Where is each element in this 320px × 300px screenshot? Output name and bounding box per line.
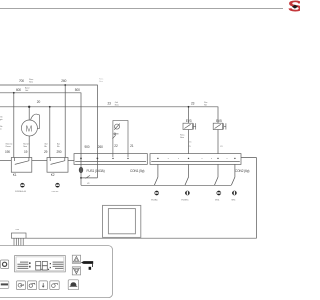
svg-text:EV-VAC: EV-VAC [151,198,158,201]
top border rule [0,8,283,10]
svg-text:23: 23 [108,102,112,106]
terminal EV-RISC [185,191,189,195]
CON2 pin 3 [214,164,218,185]
svg-text:260: 260 [61,79,66,83]
logo S (red, cropped at right edge) [288,0,303,15]
CON2 pin 2 [185,164,189,185]
CON2 pin 4 [231,164,235,185]
CON2 spare pin mark [226,157,229,160]
junction wire EV3 on line 23 [188,106,190,108]
solenoid valve EV3 [183,123,196,129]
CON2 spare pin mark [167,157,170,160]
temp lever indicator [81,261,93,264]
svg-text:EV3: EV3 [186,119,192,123]
svg-text:CON1 (5p): CON1 (5p) [130,169,144,173]
sensor symbol ON/OFF [55,183,59,187]
CON2 spare pin mark [210,157,213,160]
button air to face [17,281,26,290]
thermostat TH1 box [112,121,128,157]
svg-text:23: 23 [191,102,195,106]
CON2 pin 1 [154,164,158,185]
svg-text:19: 19 [24,150,28,154]
line 20/23 [0,107,218,123]
terminal 3 [217,191,221,195]
temp up button [72,255,80,263]
wire EV5 lower [217,130,219,154]
junction dots [13,84,190,179]
connector CN6 to panel [11,233,26,246]
button demist [50,281,59,290]
svg-text:M: M [25,123,32,133]
junction wire 29 on line 20 [49,106,51,108]
svg-text:EV5: EV5 [216,119,222,123]
motor wire top [28,107,30,120]
svg-text:260: 260 [98,145,103,149]
svg-text:ON/OFF: ON/OFF [52,191,60,193]
CON1 pin 900 [80,158,82,160]
junction fuse link [80,177,82,179]
display right bars [53,262,64,268]
control panel body [0,246,113,298]
connector CON1 bar [74,154,147,165]
svg-text:K1: K1 [13,173,17,177]
svg-text:20: 20 [37,100,41,104]
svg-text:29: 29 [44,150,48,154]
wire 190 [13,93,15,158]
junction motor wire on line 20 [28,106,30,108]
control unit double box [103,205,141,237]
CON1 pin 260 [97,158,99,160]
wire 29 to relay K2 [49,107,51,158]
solenoid valve EV5 [213,123,226,129]
display [15,256,66,272]
wire 290 [64,85,66,158]
svg-text:500: 500 [75,88,80,92]
fuse link [81,177,97,179]
CON2 pin 4 mark [234,158,235,159]
button air bi-level [28,281,37,290]
CON2 spare pin mark [201,157,204,160]
temp down button [72,267,80,275]
fuse FUS1 [79,167,83,173]
button vent mode (clipped) [0,281,9,288]
sensor symbol SONDA [20,183,24,187]
terminal EV-VAC [155,191,159,195]
svg-text:Ner: Ner [204,105,207,107]
relay K2 [47,158,68,173]
svg-text:Blu: Blu [44,146,47,148]
terminal MR1 [232,191,236,195]
blower motor M1 [21,114,39,136]
common return line [81,184,231,186]
switch blade on fuse link [85,175,90,178]
bus wire 600/500 [0,93,81,167]
svg-text:SONDA 4+00: SONDA 4+00 [15,190,27,193]
bus wire 700/260 [0,85,97,178]
svg-text:900: 900 [85,145,90,149]
svg-text:EV-RISC: EV-RISC [181,199,189,201]
fan button [1,260,9,269]
wire EV3 [188,107,190,123]
CON1 pin 21 [127,158,128,159]
CON2 spare pin mark [177,157,180,160]
relay K1 [11,158,32,173]
CON2 pin 2 mark [188,158,189,159]
motor wire bottom [28,136,30,158]
svg-text:FUS1 (0.63A): FUS1 (0.63A) [87,169,105,173]
junction wire 290 on bus 700 [64,84,66,86]
wire below fuse [80,173,82,185]
svg-text:21: 21 [130,144,134,148]
button recirculation [68,280,78,290]
CON2 pin 1 mark [157,158,158,159]
connector CON2 bar [150,154,241,165]
relay bus line [0,159,11,161]
svg-text:22: 22 [114,144,118,148]
svg-text:190: 190 [5,150,10,154]
svg-text:290: 290 [57,150,62,154]
CON2 pin 3 mark [217,158,218,159]
button air to floor [39,281,47,290]
display left bars [17,262,28,268]
svg-text:Blu: Blu [57,146,60,148]
panel feed wire [26,158,256,239]
CON1 pin 22 [112,158,113,159]
junction wire 190 on bus 600 [13,92,15,94]
svg-text:CON2 (6p): CON2 (6p) [235,169,249,173]
svg-text:600: 600 [16,88,21,92]
display digits 88 [36,261,48,270]
svg-text:K2: K2 [51,173,55,177]
svg-text:700: 700 [19,79,24,83]
